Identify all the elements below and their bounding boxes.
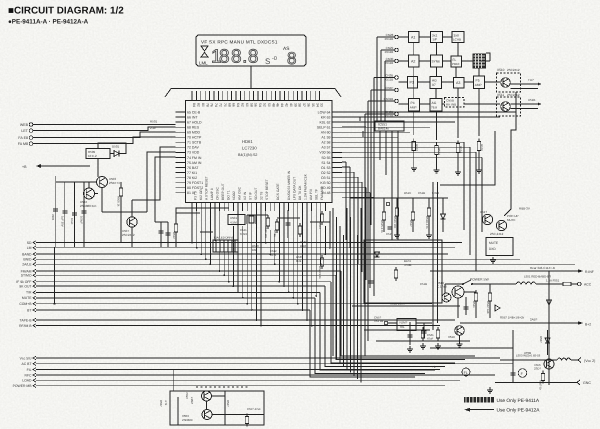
terminal MUTE xyxy=(33,296,36,300)
svg-text:8.8: 8.8 xyxy=(231,47,259,68)
terminal TP51 xyxy=(386,202,390,206)
wire left col in box xyxy=(177,397,179,425)
capacitor xyxy=(82,211,87,213)
svg-text:LPS DATA OUT: LPS DATA OUT xyxy=(293,177,297,200)
svg-text:●PE-9411A-A · PE-9412A-A: ●PE-9411A-A · PE-9412A-A xyxy=(8,19,89,26)
svg-text:74: 74 xyxy=(214,103,218,107)
svg-text:AN 60: AN 60 xyxy=(321,131,331,135)
svg-text:2AB?: 2AB? xyxy=(530,318,538,322)
svg-text:X51?: X51? xyxy=(480,210,487,214)
svg-text:44: 44 xyxy=(280,103,284,107)
svg-text:P4: P4 xyxy=(411,101,415,105)
svg-text:78 KI2: 78 KI2 xyxy=(187,176,197,180)
svg-text:36: 36 xyxy=(307,103,311,107)
wire FIL xyxy=(36,369,440,371)
svg-text:FA M8: FA M8 xyxy=(18,142,28,146)
block SYN6 xyxy=(431,55,443,67)
svg-text:2A/LE: 2A/LE xyxy=(22,263,32,267)
resistor xyxy=(394,267,397,281)
vertical wires from IC551 region down xyxy=(380,131,398,240)
wire Vcc2 line xyxy=(500,359,557,361)
svg-text:2SC2412: 2SC2412 xyxy=(507,93,520,97)
diode D552 column xyxy=(548,290,550,385)
block 3x1 SP xyxy=(431,32,443,43)
wire R.INF line xyxy=(430,270,578,272)
svg-text:MUTE: MUTE xyxy=(22,296,32,300)
capacitor xyxy=(62,211,67,213)
capacitor xyxy=(369,281,374,283)
wire BAND xyxy=(36,253,448,255)
svg-text:69 MOD: 69 MOD xyxy=(187,131,201,135)
svg-text:DX/DCS3 MHER IN: DX/DCS3 MHER IN xyxy=(287,170,291,200)
svg-text:LM: LM xyxy=(27,246,32,250)
terminal CN31B xyxy=(395,99,399,103)
terminal 9K OUT xyxy=(33,284,36,288)
svg-text:66 INT: 66 INT xyxy=(187,115,198,119)
svg-text:64: 64 xyxy=(236,103,240,107)
wire bus corner xyxy=(331,282,455,363)
capacitor xyxy=(388,227,393,229)
capacitor xyxy=(422,331,427,333)
svg-text:A STOP RESET: A STOP RESET xyxy=(205,176,209,200)
svg-text:MUTE: MUTE xyxy=(507,218,516,222)
LCD display panel outline xyxy=(196,35,306,66)
wire TAPE-B xyxy=(36,319,455,321)
ground xyxy=(457,341,463,347)
terminal FA M8 xyxy=(29,142,33,146)
svg-text:68: 68 xyxy=(227,103,231,107)
transistor Q511 xyxy=(501,102,511,112)
transistor Q510 xyxy=(501,78,511,88)
svg-text:100uF: 100uF xyxy=(80,216,84,224)
svg-text:4.7k: 4.7k xyxy=(164,400,168,406)
ground xyxy=(435,343,441,349)
svg-text:72: 72 xyxy=(219,103,223,107)
svg-text:73 VDD: 73 VDD xyxy=(187,151,200,155)
svg-text:79 FOST1: 79 FOST1 xyxy=(187,181,203,185)
svg-text:A1: A1 xyxy=(411,36,415,40)
svg-text:X511: X511 xyxy=(497,93,504,97)
svg-text:+B: +B xyxy=(22,165,27,169)
svg-text:NJM?: NJM? xyxy=(400,321,408,325)
svg-text:CN4F: CN4F xyxy=(385,86,393,90)
legend hatched box PE-9411A xyxy=(464,397,494,402)
wire bus corner xyxy=(320,292,435,370)
circle F2 xyxy=(518,369,527,378)
svg-text:O1 53: O1 53 xyxy=(321,166,331,170)
svg-text:KIA/LED DRIVE: KIA/LED DRIVE xyxy=(214,236,234,240)
resistor R570 xyxy=(421,327,424,341)
wire MUTE xyxy=(36,297,315,299)
svg-text:38: 38 xyxy=(298,103,302,107)
ground xyxy=(411,165,417,171)
svg-text:47uF: 47uF xyxy=(427,337,434,341)
svg-text:BT: BT xyxy=(27,308,31,312)
inductor L553 xyxy=(557,358,571,360)
resistor xyxy=(174,221,177,235)
wire cross link xyxy=(430,347,513,349)
wire bus corner xyxy=(325,286,445,366)
terminal BN/D xyxy=(33,257,36,261)
svg-text:R541: R541 xyxy=(472,301,476,308)
wires below resistors xyxy=(414,154,479,173)
svg-text:DXD: DXD xyxy=(489,247,496,251)
terminal FIL xyxy=(33,368,36,372)
transistor Q552 xyxy=(202,391,212,401)
svg-text:X511B: X511B xyxy=(385,77,394,81)
svg-text:10 E.2: 10 E.2 xyxy=(88,154,97,158)
svg-text:LAMP 8: LAMP 8 xyxy=(210,188,214,200)
svg-text:AM OSC: AM OSC xyxy=(238,186,242,200)
resistor xyxy=(320,255,323,269)
svg-text:SD: SD xyxy=(27,241,32,245)
IC bottom pin signal names (rotated) xyxy=(194,170,325,200)
wire xyxy=(132,147,176,200)
wires: row1 block chain xyxy=(398,37,479,140)
capacitor C541 xyxy=(465,297,467,315)
resistor xyxy=(320,211,323,225)
svg-text:65 CE-B: 65 CE-B xyxy=(187,110,201,114)
svg-text:D55?: D55? xyxy=(539,336,543,343)
svg-text:KR 63: KR 63 xyxy=(321,115,331,119)
svg-text:70 HCTP: 70 HCTP xyxy=(187,136,202,140)
capacitor xyxy=(511,373,516,375)
resistor R571 xyxy=(436,327,439,341)
svg-text:2SB?: 2SB? xyxy=(190,397,194,404)
ground xyxy=(420,343,426,349)
svg-text:R553: R553 xyxy=(437,148,441,156)
svg-text:R512: R512 xyxy=(172,232,176,239)
svg-text:R555: R555 xyxy=(480,144,484,152)
svg-text:AS: AS xyxy=(283,46,289,52)
wire xyxy=(64,182,66,247)
svg-text:A1 59: A1 59 xyxy=(321,136,330,140)
svg-text:AG: AG xyxy=(432,101,437,105)
svg-text:PB10: PB10 xyxy=(452,62,460,66)
resistor xyxy=(477,139,480,154)
svg-text:VF SX RPC MANU MTL DXDCS1: VF SX RPC MANU MTL DXDCS1 xyxy=(201,40,278,45)
LCD connector bracket xyxy=(165,89,341,98)
wire bus corner xyxy=(310,310,415,377)
terminal CN3B xyxy=(395,112,399,116)
resistor xyxy=(412,139,415,154)
svg-text:X511B: X511B xyxy=(385,37,394,41)
wire top network rail xyxy=(350,197,448,199)
power rail horizontal xyxy=(56,181,97,183)
svg-text:B4(1)(N)-S2: B4(1)(N)-S2 xyxy=(238,153,257,157)
svg-text:BEEP OUT: BEEP OUT xyxy=(221,183,225,200)
svg-text:P5: P5 xyxy=(476,79,480,83)
IC51 regulator box xyxy=(397,319,416,331)
diode D510 xyxy=(441,214,446,219)
svg-text:74 FM IN: 74 FM IN xyxy=(187,156,202,160)
wires: IC right pins to right section xyxy=(342,112,516,271)
svg-text:X518: X518 xyxy=(448,335,455,339)
wire IF 9k OFF xyxy=(36,281,331,283)
svg-text:33: 33 xyxy=(320,103,324,107)
ground xyxy=(434,167,440,173)
svg-text:46: 46 xyxy=(276,103,280,107)
svg-text:O2 52: O2 52 xyxy=(321,171,331,175)
wire RF/IM B xyxy=(36,325,440,327)
terminal BAND xyxy=(33,252,36,256)
transistor Q513 2SC2412 xyxy=(496,220,506,230)
svg-text:8: 8 xyxy=(219,47,230,68)
svg-text:58: 58 xyxy=(249,103,253,107)
transistor X510 with dashed outline xyxy=(497,73,521,92)
wire GND line xyxy=(495,381,577,383)
svg-text:75 AM IN: 75 AM IN xyxy=(187,161,202,165)
terminal CN4F xyxy=(395,88,399,92)
diode D501 xyxy=(114,151,119,157)
svg-text:70: 70 xyxy=(223,103,227,107)
svg-text:SYN6: SYN6 xyxy=(432,60,441,64)
wire transistor links xyxy=(89,166,102,212)
terminal Vcc2 xyxy=(578,358,581,363)
resistor xyxy=(541,371,544,384)
svg-text:C519: C519 xyxy=(386,232,393,236)
svg-text:ST IF: ST IF xyxy=(249,192,253,200)
block 3x8 LCHB xyxy=(452,32,464,43)
ground xyxy=(426,232,432,238)
svg-text:7805: 7805 xyxy=(51,214,55,221)
wire xyxy=(74,182,76,247)
svg-text:C51B: C51B xyxy=(420,282,427,286)
resistor xyxy=(411,209,414,223)
terminal BT xyxy=(33,308,36,312)
block AG 76.8 xyxy=(430,99,442,112)
svg-text:84: 84 xyxy=(192,103,196,107)
block A1 xyxy=(409,32,420,43)
wire xyxy=(155,157,176,222)
diode D511 inside shield xyxy=(375,252,380,257)
block A2 xyxy=(409,55,420,67)
svg-text:MUTE: MUTE xyxy=(489,241,498,245)
capacitor xyxy=(159,231,164,233)
svg-text:62: 62 xyxy=(241,103,245,107)
svg-text:2SD880: 2SD880 xyxy=(182,418,193,422)
svg-text:3.5uB: 3.5uB xyxy=(404,263,411,267)
svg-text:D501: D501 xyxy=(112,145,120,149)
svg-text:R515 4.7k: R515 4.7k xyxy=(380,220,384,233)
wires right column xyxy=(548,271,550,385)
svg-text:22?3: 22?3 xyxy=(270,253,277,257)
ground xyxy=(490,257,496,263)
dashed block CN5B RH INB xyxy=(445,98,465,108)
wire T/R xyxy=(36,291,320,293)
capacitor xyxy=(72,213,77,215)
svg-text:0.022: 0.022 xyxy=(432,191,439,195)
svg-text:48: 48 xyxy=(271,103,275,107)
wire xyxy=(55,176,57,247)
wire Vcc 5/U xyxy=(36,357,500,359)
wire BN/D xyxy=(36,258,520,260)
block P5 AMP xyxy=(474,76,485,89)
svg-text:TU?: TU? xyxy=(528,78,534,82)
svg-text:R505 1k: R505 1k xyxy=(117,196,121,207)
circle FL xyxy=(462,368,470,376)
wires: IC right pin fanout xyxy=(342,162,374,296)
svg-text:72 DAV: 72 DAV xyxy=(187,146,199,150)
wires to transistors xyxy=(464,82,538,109)
crystal X501 box xyxy=(228,215,245,225)
svg-text:Use Only PE-9412A: Use Only PE-9412A xyxy=(497,408,541,414)
resistor xyxy=(435,143,438,158)
svg-text:82: 82 xyxy=(197,103,201,107)
resistor xyxy=(474,290,477,304)
wire column R505 xyxy=(120,182,122,188)
wire bus corner xyxy=(336,275,465,359)
svg-text:R58? 1k: R58? 1k xyxy=(539,380,542,391)
svg-text:DO T1: DO T1 xyxy=(227,190,231,200)
wire xyxy=(147,152,176,212)
wires: IC bottom pin drops xyxy=(192,211,330,326)
svg-text:56: 56 xyxy=(254,103,258,107)
svg-text:SELP 61: SELP 61 xyxy=(317,125,331,129)
IC left pin stubs and labels xyxy=(176,112,186,193)
junction dots on bus xyxy=(191,239,331,326)
svg-text:KI3 50: KI3 50 xyxy=(320,181,330,185)
shield box outline xyxy=(364,240,442,303)
svg-text:52: 52 xyxy=(263,103,267,107)
svg-text:2SC,2412: 2SC,2412 xyxy=(490,232,504,236)
svg-text:R517: R517 xyxy=(409,220,413,227)
terminal Vcc 5/U xyxy=(33,356,36,360)
ground xyxy=(394,232,400,238)
svg-text:ACC: ACC xyxy=(584,283,592,287)
svg-text:60: 60 xyxy=(245,103,249,107)
svg-text:VDD2: VDD2 xyxy=(232,191,236,200)
svg-text:(Vcc 2): (Vcc 2) xyxy=(584,359,595,363)
wire ST/MO xyxy=(36,274,336,276)
capacitor xyxy=(53,209,58,211)
svg-text:Use Only PE-9411A: Use Only PE-9411A xyxy=(497,398,540,404)
terminal WEB xyxy=(29,123,33,127)
wire to IC51 xyxy=(388,322,397,324)
hatched block to P5 wire xyxy=(479,60,490,62)
LCD digits 188.8 xyxy=(211,47,296,69)
wire filter loop xyxy=(98,143,126,154)
terminal CN3B xyxy=(395,76,399,80)
block P3 xyxy=(408,77,418,89)
capacitor xyxy=(464,307,469,309)
svg-text:R523: R523 xyxy=(318,222,322,229)
svg-text:T/R: T/R xyxy=(26,291,32,295)
svg-text:X511B: X511B xyxy=(385,61,394,65)
svg-text:GNC: GNC xyxy=(583,381,591,385)
svg-text:P3: P3 xyxy=(410,81,414,85)
terminal T/R xyxy=(33,291,36,295)
wire +B xyxy=(41,165,90,167)
svg-text:FM/AM B: FM/AM B xyxy=(320,185,324,200)
ground xyxy=(455,169,461,175)
svg-text:1.2H FM/AM CLK: 1.2H FM/AM CLK xyxy=(304,173,308,200)
svg-text:LC7230: LC7230 xyxy=(242,146,257,151)
svg-text:AMP: AMP xyxy=(475,83,482,87)
wire Q505 xyxy=(102,200,132,247)
wire links under IC xyxy=(176,208,331,232)
svg-text:B+2: B+2 xyxy=(585,323,591,327)
svg-text:AM P3l: AM P3l xyxy=(309,189,313,200)
wire box to transistor xyxy=(97,159,99,167)
svg-text:POWER SW: POWER SW xyxy=(470,278,490,282)
terminal CN28 xyxy=(395,35,399,39)
transistor Q505 xyxy=(127,217,137,227)
svg-text:RH INB: RH INB xyxy=(446,103,456,107)
svg-text:V30 56: V30 56 xyxy=(319,151,330,155)
IC552 audio box xyxy=(170,391,264,425)
wires: block terminals to left bus xyxy=(365,37,395,356)
wire FA E8 xyxy=(33,132,176,138)
wire FA M8 xyxy=(33,137,176,144)
capacitor C571 xyxy=(409,322,411,345)
connector CN501 xyxy=(213,240,238,252)
IC top pin numbers xyxy=(192,103,324,107)
wire links lower mid xyxy=(352,306,470,341)
svg-text:76 BAT: 76 BAT xyxy=(187,166,199,170)
mute block box xyxy=(486,238,513,256)
svg-text:R.INF: R.INF xyxy=(585,270,594,274)
svg-text:A3: A3 xyxy=(456,81,460,85)
svg-text:AMP: AMP xyxy=(410,106,417,110)
svg-text:R516 100: R516 100 xyxy=(393,216,397,229)
resistor xyxy=(266,215,269,229)
svg-text:R524 9.1k: R524 9.1k xyxy=(318,266,322,279)
box X501 filter xyxy=(86,149,110,159)
LCD tuning triangle symbols xyxy=(201,46,208,51)
wire: LCD to connector stem xyxy=(250,66,252,88)
svg-text:97: 97 xyxy=(432,83,436,87)
terminal RFC xyxy=(33,373,36,377)
wire right bus from blocks xyxy=(504,92,516,216)
svg-text:X552: X552 xyxy=(185,392,189,399)
wire LM xyxy=(36,247,455,249)
svg-text:66: 66 xyxy=(232,103,236,107)
wires from IC551 to IC501 xyxy=(342,117,372,137)
svg-text:77 KI1: 77 KI1 xyxy=(187,171,197,175)
enclosure corner line xyxy=(440,131,495,185)
svg-text:50: 50 xyxy=(267,103,271,107)
terminal CN30 xyxy=(395,59,399,63)
svg-text:RF/IM B: RF/IM B xyxy=(19,324,32,328)
svg-text:39: 39 xyxy=(293,103,297,107)
svg-text:54: 54 xyxy=(258,103,262,107)
crystal symbol xyxy=(247,215,256,224)
svg-text:71 SCTB: 71 SCTB xyxy=(187,141,202,145)
svg-text:X51 1B: X51 1B xyxy=(374,319,383,323)
resistor xyxy=(395,205,398,219)
svg-text:A2: A2 xyxy=(411,60,415,64)
wires: mid vertical cluster xyxy=(333,208,361,382)
svg-text:2SB774: 2SB774 xyxy=(109,181,120,185)
terminal RF/IM B xyxy=(33,324,36,328)
terminal CN51 xyxy=(384,321,388,325)
wire COM+B xyxy=(36,303,432,305)
resistor xyxy=(119,185,122,199)
transistor Q518 xyxy=(455,326,465,336)
svg-text:LCHB: LCHB xyxy=(453,38,461,42)
wire AC BT xyxy=(36,363,513,365)
svg-text:X2 IN: X2 IN xyxy=(243,191,247,200)
svg-text:2SD?: 2SD? xyxy=(534,367,541,371)
wire FM/AM xyxy=(36,270,341,272)
svg-text:68 RES: 68 RES xyxy=(187,125,200,129)
terminal FM/AM xyxy=(33,269,36,273)
svg-text:R542 1uB: R542 1uB xyxy=(486,301,490,314)
wire WEB to IC xyxy=(33,124,176,126)
ground xyxy=(407,346,413,352)
terminal POWER MB xyxy=(33,384,36,388)
